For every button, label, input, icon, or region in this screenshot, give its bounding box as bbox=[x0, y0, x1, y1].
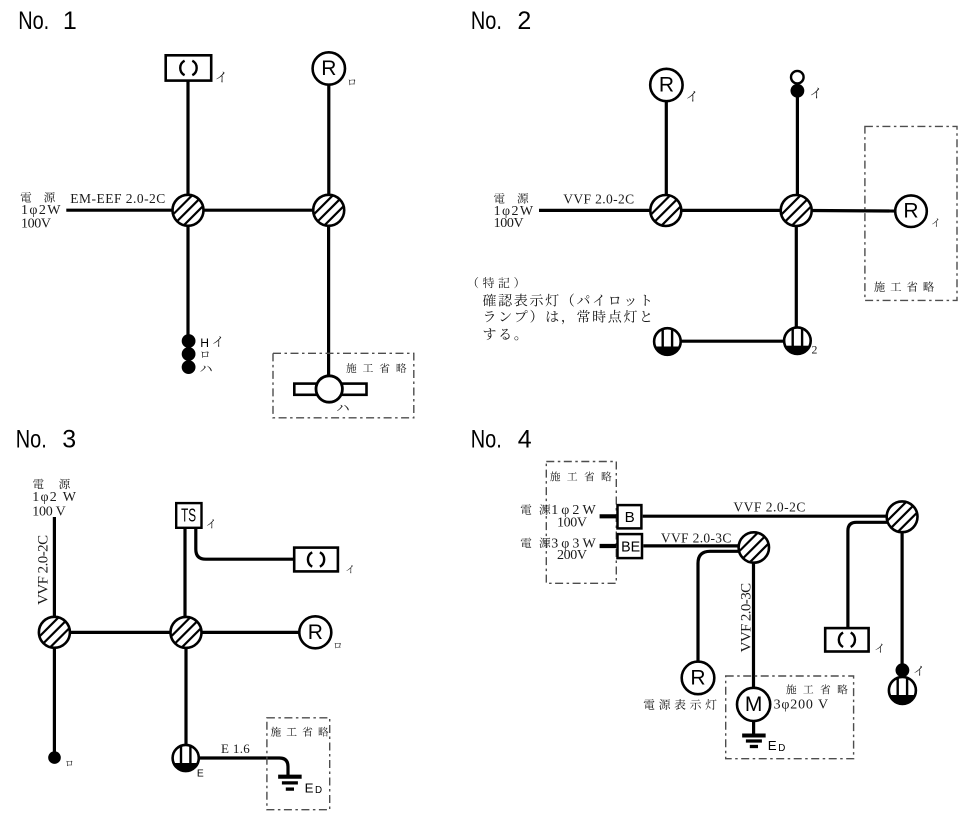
svg-text:1: 1 bbox=[63, 7, 77, 35]
svg-text:E 1.6: E 1.6 bbox=[221, 741, 250, 756]
svg-text:VVF 2.0-3C: VVF 2.0-3C bbox=[738, 583, 754, 653]
svg-text:B: B bbox=[625, 509, 635, 526]
svg-text:No.: No. bbox=[18, 7, 49, 35]
svg-text:R: R bbox=[903, 200, 918, 223]
svg-text:R: R bbox=[659, 74, 674, 97]
svg-text:100V: 100V bbox=[21, 216, 51, 231]
svg-text:No.: No. bbox=[471, 7, 502, 35]
svg-text:100 V: 100 V bbox=[32, 504, 65, 519]
svg-text:VVF 2.0-2C: VVF 2.0-2C bbox=[733, 500, 805, 515]
svg-text:No.: No. bbox=[471, 425, 502, 453]
svg-text:R: R bbox=[321, 57, 336, 80]
svg-text:100V: 100V bbox=[557, 516, 587, 531]
svg-text:EM-EEF 2.0-2C: EM-EEF 2.0-2C bbox=[70, 191, 165, 206]
svg-text:No.: No. bbox=[16, 425, 47, 453]
svg-text:2: 2 bbox=[812, 343, 818, 357]
svg-text:VVF 2.0-3C: VVF 2.0-3C bbox=[661, 530, 732, 545]
svg-text:200V: 200V bbox=[557, 548, 587, 563]
svg-text:BE: BE bbox=[621, 539, 640, 556]
svg-text:VVF 2.0-2C: VVF 2.0-2C bbox=[563, 191, 634, 206]
svg-text:100V: 100V bbox=[494, 216, 524, 231]
svg-text:E: E bbox=[305, 780, 314, 795]
svg-text:TS: TS bbox=[181, 506, 196, 526]
svg-text:1φ2 W: 1φ2 W bbox=[32, 490, 77, 505]
svg-text:2: 2 bbox=[517, 7, 531, 35]
svg-text:R: R bbox=[690, 666, 705, 689]
svg-text:H: H bbox=[200, 336, 209, 350]
svg-text:M: M bbox=[745, 693, 763, 716]
svg-text:D: D bbox=[778, 743, 785, 754]
svg-text:3: 3 bbox=[62, 425, 76, 453]
svg-text:R: R bbox=[308, 621, 323, 644]
svg-text:4: 4 bbox=[518, 425, 532, 453]
svg-text:E: E bbox=[197, 769, 204, 780]
svg-text:D: D bbox=[315, 785, 322, 796]
svg-text:3φ200 V: 3φ200 V bbox=[774, 698, 829, 713]
svg-text:VVF 2.0-2C: VVF 2.0-2C bbox=[35, 535, 51, 605]
svg-text:E: E bbox=[768, 738, 777, 753]
